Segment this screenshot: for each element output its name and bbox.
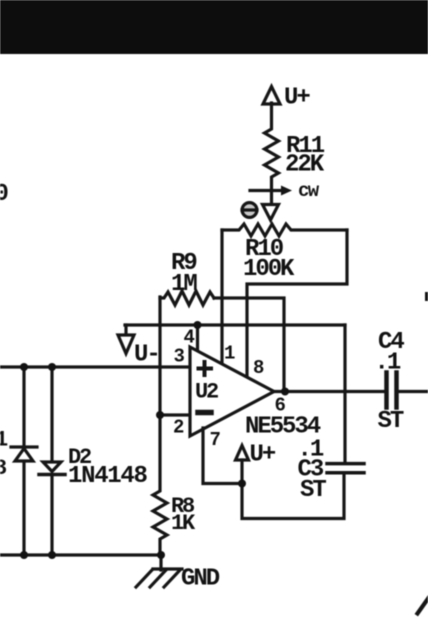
svg-text:GND: GND	[181, 566, 220, 593]
svg-text:4: 4	[184, 326, 195, 348]
node bottom rail D1	[20, 551, 28, 559]
wire V- rail (pin 4 net)	[125, 323, 345, 326]
pot wiper arrow	[263, 205, 279, 221]
capacitor C4 plates	[384, 373, 389, 408]
diode D2 wires	[50, 369, 53, 462]
svg-text:U-: U-	[134, 342, 159, 369]
wire C4 right	[400, 390, 428, 393]
svg-text:cw: cw	[298, 180, 320, 202]
cw arrow	[250, 189, 282, 192]
diode D1	[11, 445, 37, 448]
node input/D2 junction	[48, 363, 56, 371]
op-amp plus input marking	[199, 367, 212, 371]
power symbol V+ bottom	[236, 446, 249, 461]
wire pot left terminal to pin 1	[220, 230, 223, 363]
svg-text:2: 2	[173, 417, 184, 439]
wire R9 right lead to output node	[214, 298, 284, 392]
wire output pin 6	[274, 390, 385, 393]
op-amp minus input marking	[198, 410, 211, 416]
resistor R8	[153, 415, 167, 555]
node output feedback junction	[281, 388, 289, 396]
svg-text:1M: 1M	[171, 271, 197, 298]
svg-text:8: 8	[253, 357, 264, 379]
pot wiper terminal circle	[242, 203, 257, 218]
partial ground symbol bottom right corner	[418, 597, 428, 614]
power symbol V- arrow	[118, 335, 134, 354]
svg-text:7: 7	[210, 429, 221, 451]
svg-text:8: 8	[0, 456, 7, 481]
svg-text:1N4148: 1N4148	[68, 463, 148, 490]
wire bottom rail	[0, 553, 161, 556]
wire pin 4 stub	[196, 325, 199, 350]
op-amp U2 triangle	[190, 347, 274, 436]
svg-text:U2: U2	[195, 379, 218, 404]
resistor R9	[160, 291, 214, 305]
svg-text:0: 0	[0, 181, 9, 208]
node bottom rail R8	[157, 551, 165, 559]
wire pin 7 to V+ node	[203, 428, 242, 484]
svg-text:U+: U+	[284, 85, 310, 112]
svg-text:3: 3	[174, 346, 185, 368]
wire V- rail down to C3 top	[343, 325, 346, 463]
node bottom rail D2	[48, 551, 56, 559]
node inverting input junction	[156, 411, 164, 419]
svg-text:22K: 22K	[285, 152, 325, 179]
potentiometer R10	[222, 224, 347, 236]
svg-text:ST: ST	[300, 477, 326, 504]
ground symbol GND	[159, 555, 162, 570]
node pin 4 junction	[194, 321, 202, 329]
diode D1 wires	[22, 369, 25, 447]
svg-text:1: 1	[0, 428, 8, 453]
capacitor C3 plates	[327, 462, 364, 466]
resistor R11	[265, 103, 279, 206]
wire R9 left lead down to inverting input node	[158, 297, 161, 415]
svg-text:1: 1	[224, 343, 235, 365]
svg-text:ST: ST	[378, 408, 404, 435]
power symbol V- stem	[124, 325, 127, 336]
partial glyph right edge	[425, 292, 428, 301]
wire pin 2 to inverting node	[160, 413, 190, 416]
wire input net to pin 3	[0, 365, 190, 368]
diode D2	[43, 462, 61, 472]
node input/D1 junction	[20, 363, 28, 371]
svg-text:100K: 100K	[243, 256, 295, 283]
svg-text:U+: U+	[250, 442, 276, 469]
svg-text:.1: .1	[375, 350, 401, 377]
wire V+ node to C3 bottom	[242, 475, 344, 519]
node V+ junction	[238, 480, 246, 488]
wire pot right terminal to pin 8	[247, 230, 347, 378]
power symbol V+ top	[263, 87, 280, 105]
svg-text:1K: 1K	[171, 511, 196, 536]
top black header bar	[0, 0, 428, 54]
